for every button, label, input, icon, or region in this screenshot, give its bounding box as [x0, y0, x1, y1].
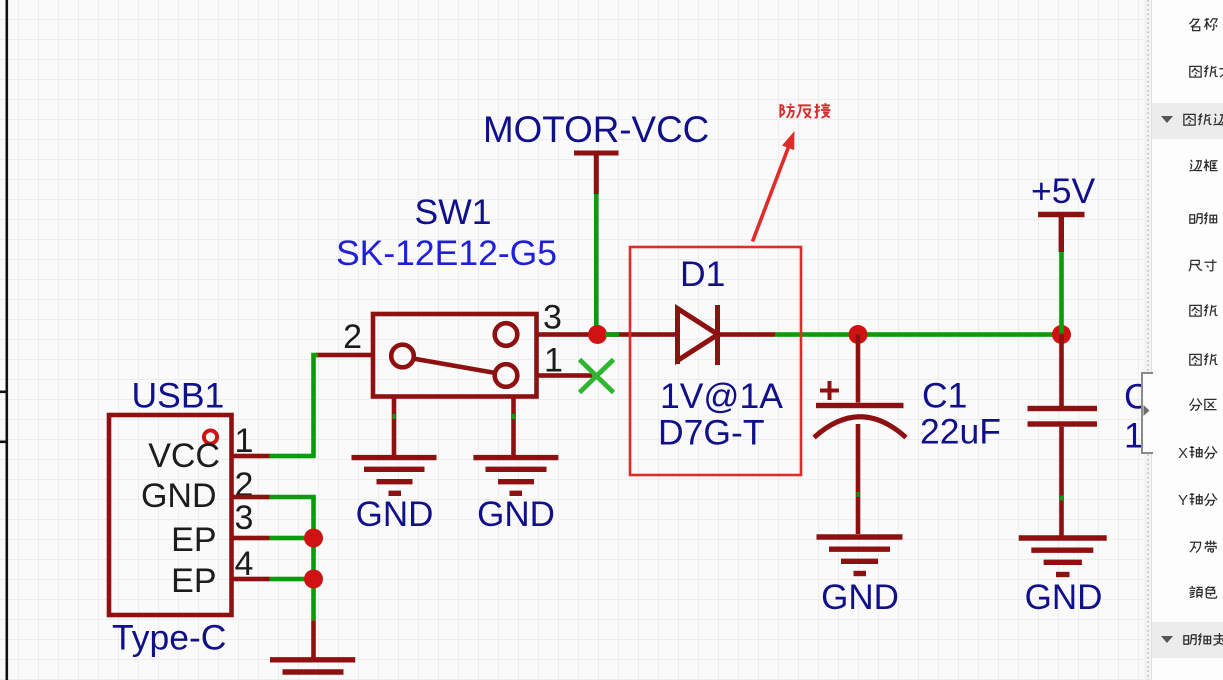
capacitor C2 value (clipped) [1124, 416, 1223, 456]
wire MOTOR-VCC vertical green [594, 194, 599, 333]
svg-text:1V@1A: 1V@1A [660, 376, 783, 416]
sheet zone tick upper [0, 391, 6, 394]
pin number 3 [543, 299, 562, 337]
ground symbol G3 [817, 537, 903, 574]
pin number 3 [235, 499, 254, 537]
capacitor C1 value 22uF [920, 412, 1001, 452]
ground net label GND (G2) [477, 495, 555, 534]
header 明细表 [1159, 632, 1175, 647]
capacitor C1 designator [922, 376, 967, 416]
power symbol MOTOR-VCC [574, 153, 619, 194]
wire +5V to node C green [1059, 252, 1064, 333]
pin end mark C2 [1060, 496, 1063, 501]
svg-text:Type-C: Type-C [112, 618, 226, 658]
switch SW1 body [373, 314, 537, 397]
capacitor C2 top plate [1028, 406, 1098, 411]
row Y轴分 [1178, 492, 1218, 510]
USB pin3 stub [232, 536, 270, 541]
junction dot node C at C2 [1052, 325, 1071, 344]
junction dot pin3 [304, 529, 323, 548]
ground symbol G1 [352, 458, 437, 494]
svg-text:USB1: USB1 [132, 376, 225, 416]
wire pin2 down to USB pin1 (green) [314, 355, 319, 457]
svg-text:VCC: VCC [148, 437, 220, 475]
wire main net green horizontal [775, 332, 1062, 337]
pin number 1 [235, 422, 254, 460]
row 边框 [1188, 158, 1218, 176]
USB pin2 stub [232, 495, 270, 500]
connector USB1 value Type-C [112, 618, 226, 658]
pin name EP (4) [171, 562, 216, 600]
svg-text:SW1: SW1 [415, 192, 492, 232]
row 图纸 [1188, 303, 1218, 321]
svg-text:D7G-T: D7G-T [658, 413, 765, 453]
USB pin4 stub [232, 577, 270, 582]
junction dot node B at C1 [849, 325, 868, 344]
ground net label GND (G1) [356, 495, 434, 534]
header 图纸边框 [1159, 112, 1175, 127]
row 图纸大小 [1188, 64, 1223, 82]
no-connect X mark [580, 360, 614, 393]
ground symbol G4 [1019, 538, 1107, 575]
svg-text:22uF: 22uF [920, 412, 1001, 452]
diode designator D1 [680, 254, 725, 294]
ground symbol G5 [270, 660, 355, 680]
pin number 2 [343, 318, 362, 356]
svg-text:3: 3 [235, 499, 254, 537]
capacitor C2 wire from node C [1059, 335, 1064, 407]
switch pin 2 stub [316, 353, 373, 358]
row 刃带 [1188, 539, 1218, 557]
capacitor C1 top plate [816, 403, 904, 408]
capacitor C1 wire from node B [856, 335, 861, 403]
svg-text:2: 2 [343, 318, 362, 356]
wire GND bus vertical green [311, 497, 316, 620]
svg-text:GND: GND [356, 495, 434, 534]
power symbol +5V [1038, 215, 1085, 253]
net label MOTOR-VCC [483, 109, 709, 150]
pin number 4 [235, 545, 254, 583]
svg-text:1: 1 [544, 342, 563, 380]
pin name GND [141, 477, 217, 515]
panel section header band 1 [1152, 103, 1223, 139]
svg-text:C1: C1 [922, 376, 967, 416]
svg-text:GND: GND [1025, 578, 1103, 617]
wire diode cathode to green (dark red) [720, 332, 775, 337]
wire USB pin4 green [270, 577, 314, 582]
sheet border line [6, 0, 9, 680]
capacitor C1 curved plate [814, 417, 906, 438]
ground net label GND (G4) [1025, 578, 1103, 617]
diode D1 symbol [678, 305, 719, 365]
capacitor C1 bottom wire [856, 424, 861, 534]
ground symbol G2 [473, 458, 558, 494]
capacitor C1 polarity plus [820, 381, 839, 400]
switch bottom pin stub left [392, 397, 397, 458]
pin end mark left [393, 414, 396, 419]
svg-text:+5V: +5V [1031, 171, 1095, 211]
panel section header band 2 [1152, 622, 1223, 658]
pin number 1 [544, 342, 563, 380]
capacitor C2 designator (clipped) [1124, 377, 1169, 417]
wire USB pin2 green corner [270, 497, 314, 500]
row 明细 [1188, 211, 1218, 229]
row 颜色 [1188, 585, 1218, 603]
sheet zone tick lower [0, 441, 6, 444]
USB pin1 stub [232, 454, 270, 459]
switch pin 1 stub [537, 373, 593, 378]
row 分区 [1188, 397, 1218, 415]
svg-text:3: 3 [543, 299, 562, 337]
switch bottom pin stub right [511, 397, 516, 458]
switch SW1 value SK-12E12-G5 [336, 233, 557, 273]
power net label +5V [1031, 171, 1095, 211]
wire to ground dark red [311, 620, 316, 660]
wire USB pin3 green [270, 536, 314, 541]
wire green stub right of node A [605, 332, 619, 337]
diode value D7G-T [658, 413, 765, 453]
svg-text:EP: EP [171, 562, 216, 600]
junction dot node A [588, 325, 607, 344]
connector USB1 designator [132, 376, 225, 416]
svg-text:SK-12E12-G5: SK-12E12-G5 [336, 233, 557, 273]
wire USB pin1 green [270, 454, 316, 459]
svg-text:MOTOR-VCC: MOTOR-VCC [483, 109, 709, 150]
svg-text:EP: EP [171, 521, 216, 559]
row X轴分 [1178, 445, 1218, 463]
connector USB1 body [109, 415, 232, 615]
svg-text:GND: GND [477, 495, 555, 534]
annotation arrow [753, 131, 795, 242]
panel collapse handle [1141, 372, 1153, 454]
capacitor C2 bottom plate [1028, 421, 1098, 426]
row 图纸 [1188, 352, 1218, 370]
pin number 2 [235, 466, 254, 504]
svg-text:GND: GND [141, 477, 217, 515]
pin 1 marker circle [204, 430, 217, 443]
pin end mark C1 [857, 492, 860, 497]
annotation text fang-fan-jie (red) [780, 103, 830, 118]
junction dot pin4 [304, 570, 323, 589]
pin name VCC [148, 437, 220, 475]
pin name EP (3) [171, 521, 216, 559]
pin end mark right [512, 414, 515, 419]
svg-text:D1: D1 [680, 254, 725, 294]
annotation rectangle around D1 [630, 247, 801, 475]
switch SW1 designator [415, 192, 492, 232]
svg-text:GND: GND [821, 578, 899, 617]
capacitor C2 bottom wire [1059, 427, 1064, 537]
diode value 1V@1A [660, 376, 783, 416]
row 尺寸 [1188, 258, 1218, 276]
row 名称 [1188, 17, 1218, 35]
wire switch pin3 to diode (dark red) [536, 332, 677, 337]
ground net label GND (G3) [821, 578, 899, 617]
